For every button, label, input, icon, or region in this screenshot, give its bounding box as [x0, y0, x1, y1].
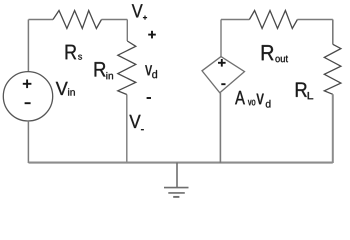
wire from Rout to top-right corner — [297, 19, 332, 21]
subscript minus of node V- — [141, 129, 144, 131]
node V+ label — [132, 4, 143, 17]
minus sign inside diamond — [221, 83, 225, 85]
ground symbol — [164, 188, 189, 197]
wire left vertical above Vin source — [27, 20, 29, 72]
subscript plus of node V+ — [143, 16, 147, 20]
wire vertical right from top corner to RL — [332, 20, 334, 45]
label Rout — [262, 45, 288, 62]
node V- label — [129, 115, 140, 128]
source Vin circle — [3, 72, 52, 121]
minus sign inside Vin — [25, 102, 31, 104]
plus sign inside Vin — [23, 80, 32, 89]
label RL — [296, 83, 313, 100]
wire below diamond to bottom rail — [219, 93, 221, 163]
label Rin — [95, 62, 113, 79]
resistor Rin (input resistance) — [118, 41, 136, 95]
resistor Rout (output resistance) — [249, 11, 297, 29]
wire below RL to bottom rail — [332, 94, 334, 163]
label Rs — [66, 45, 82, 60]
wire vertical from node V+ down to Rin — [126, 20, 128, 42]
plus sign inside diamond — [218, 59, 226, 67]
label vd — [145, 65, 157, 78]
wire top-left horizontal from source branch to Rs — [29, 19, 54, 21]
wire top of dependent source branch to Rout — [221, 19, 249, 21]
label Vin — [56, 82, 75, 96]
resistor Rs (series source resistance) — [53, 11, 102, 29]
label Avo vd (controlled source value) — [235, 91, 270, 108]
wire vertical above dependent source — [220, 20, 222, 57]
wire from Rs to node V+ — [102, 19, 128, 21]
wire below Rin to bottom rail — [126, 95, 128, 164]
dependent source Avo*vd diamond — [202, 57, 245, 93]
resistor RL (load) — [324, 44, 341, 94]
wire below Vin source to bottom rail — [27, 121, 29, 163]
minus sign of vd polarity — [147, 97, 151, 99]
plus sign of vd polarity — [148, 31, 156, 39]
ground stub wire — [176, 163, 178, 188]
wire bottom rail (common) — [29, 162, 333, 164]
